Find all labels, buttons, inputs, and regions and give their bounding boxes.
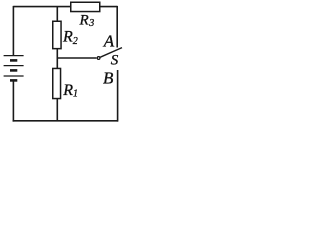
battery long plate 3: [4, 75, 24, 77]
switch S blade: [100, 48, 122, 58]
battery short thick plate 2: [10, 69, 17, 72]
svg-text:R: R: [62, 82, 73, 99]
switch S pivot circle: [97, 57, 100, 60]
wire top-right segment: [100, 6, 117, 8]
wire left upper (top corner to battery): [12, 6, 14, 55]
resistor R1 (box, middle branch lower): [53, 68, 61, 98]
wire top-left segment: [13, 6, 71, 8]
resistor R3 (box on top wire): [71, 2, 100, 11]
battery short thick plate 3: [10, 79, 17, 82]
svg-text:B: B: [103, 69, 114, 88]
svg-text:R: R: [79, 12, 89, 28]
battery long plate 2: [4, 65, 24, 67]
svg-text:3: 3: [88, 18, 94, 29]
wire left lower (battery to bottom corner): [12, 81, 14, 122]
wire right upper: terminal A branch: [116, 6, 118, 48]
svg-text:S: S: [111, 53, 119, 69]
wire right lower: terminal B branch: [117, 70, 119, 122]
resistor R2 (box, middle branch upper): [53, 21, 61, 48]
battery short thick plate 1: [10, 59, 17, 62]
svg-text:A: A: [103, 32, 115, 51]
svg-text:1: 1: [73, 89, 78, 100]
svg-text:2: 2: [73, 36, 78, 47]
wire middle branch between R2 and R1: [56, 48, 58, 69]
wire middle branch bottom (R1 to bottom wire): [56, 98, 58, 121]
wire bottom: [13, 120, 118, 122]
svg-text:R: R: [62, 29, 73, 46]
wire middle horizontal (node to switch pivot): [57, 57, 96, 59]
wire middle branch top (top wire to R2): [56, 6, 58, 22]
battery cells: long plate 1: [4, 55, 24, 57]
